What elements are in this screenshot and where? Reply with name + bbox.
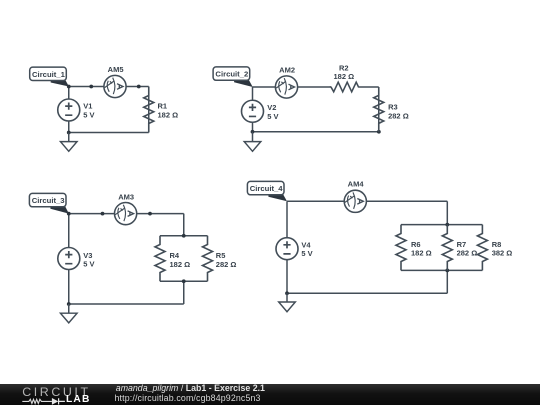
wire C2 V2 branch vertical [252,87,254,132]
svg-text:AM5: AM5 [108,65,124,74]
wire C4 corner down to top bus [446,201,448,224]
resistor R1 (182) vertical [144,87,178,133]
wire C3 top (node to corner) [69,213,184,215]
wire C3 bus drop to return [183,281,185,304]
wire C2 top (node to R2) [253,86,332,88]
footer bar [0,384,540,405]
wire C1 top (node to R1) [69,86,149,88]
wire C2 R3 drop [378,87,380,132]
svg-text:182 Ω: 182 Ω [170,260,191,269]
logo diode [52,398,58,405]
junction dot C3 bottom bus [182,279,186,283]
junction dot C1 ammeter left [89,85,93,89]
wire C1 V1 branch vertical [68,87,70,133]
CircuitLab logo resistor+diode glyph [20,396,68,405]
junction dot C3 top bus [182,234,186,238]
junction dot C1 node [67,85,71,89]
junction dot C4 ground node [285,291,289,295]
logo resistor zigzag [22,399,52,403]
wire C3 bottom bus [160,280,208,282]
wire C3 V3 branch vertical [68,214,70,304]
svg-text:Circuit_1: Circuit_1 [32,70,66,79]
svg-text:182 Ω: 182 Ω [411,248,432,257]
wire C4 top (node to corner) [287,200,447,202]
svg-text:5 V: 5 V [83,260,94,269]
footer title line [116,383,265,393]
svg-text:5 V: 5 V [267,112,278,121]
svg-text:R1: R1 [158,102,168,111]
voltage source V3 (5 V) [58,248,95,270]
svg-text:282 Ω: 282 Ω [457,248,478,257]
voltage source V1 (5 V) [58,99,95,121]
svg-text:AM2: AM2 [279,65,295,74]
svg-text:182 Ω: 182 Ω [333,72,354,81]
ground symbol (C4) [279,293,296,311]
svg-text:282 Ω: 282 Ω [216,260,237,269]
svg-text:R3: R3 [388,103,398,112]
ground symbol (C2) [244,132,261,152]
wire C2 top right to corner [359,86,379,88]
resistor R2 (182) horizontal [331,63,359,91]
voltage source V2 (5 V) [242,100,279,122]
resistor R3 (282) vertical [374,87,409,132]
ammeter AM4 [344,180,366,213]
svg-text:Circuit_2: Circuit_2 [215,70,248,79]
wire C4 top bus [401,224,482,226]
svg-text:Circuit_4: Circuit_4 [250,184,284,193]
resistor R6 (182) vertical [396,225,432,271]
footer url line [115,393,261,403]
wire C3 corner down to top bus [183,214,185,236]
resistor R5 (282) vertical [203,236,237,282]
ammeter AM5 [104,65,126,98]
wire C3 bottom return [69,303,184,305]
CircuitLab logo text CIRCUIT [22,385,90,399]
junction dot C4 top bus [445,223,449,227]
resistor R8 (382) vertical [477,225,512,271]
junction dot C1 ground node [67,131,71,135]
ground symbol (C1) [60,133,77,152]
wire C4 V4 branch vertical [286,201,288,293]
resistor R7 (282) vertical [442,225,477,271]
junction dot C3 ammeter right [148,212,152,216]
node label Circuit_2 box [213,67,250,80]
svg-text:282 Ω: 282 Ω [388,111,409,120]
node label Circuit_4 pointer [268,195,287,202]
svg-text:AM4: AM4 [348,180,365,189]
svg-text:Circuit_3: Circuit_3 [32,196,65,205]
ammeter AM2 [275,65,297,98]
ammeter AM3 [115,192,137,224]
wire C4 bottom return [287,292,447,294]
junction dot C1 ammeter right [137,85,141,89]
junction dot C3 node [67,212,71,216]
voltage source V4 (5 V) [276,238,313,260]
node label Circuit_3 box [29,193,66,206]
CircuitLab logo text LAB [66,394,91,405]
wire C2 bottom return [253,131,379,133]
junction dot C3 ground node [67,302,71,306]
svg-text:AM3: AM3 [118,192,134,201]
svg-text:V1: V1 [83,102,92,111]
junction dot C2 ground node [251,130,255,134]
wire C4 bottom bus [401,269,482,271]
junction dot C4 bottom bus [445,269,449,273]
wire C4 bus drop to return [446,270,448,293]
svg-text:V3: V3 [83,251,92,260]
node label Circuit_3 pointer [50,207,69,214]
resistor R4 (182) vertical [155,236,190,282]
junction dot C3 ammeter left [101,212,105,216]
svg-text:182 Ω: 182 Ω [158,110,179,119]
node label Circuit_2 pointer [234,80,253,87]
wire C1 bottom return [69,132,149,134]
node label Circuit_1 box [30,67,67,80]
svg-text:5 V: 5 V [83,111,94,120]
node label Circuit_1 pointer [51,80,69,86]
ground symbol (C3) [60,304,77,323]
svg-text:382 Ω: 382 Ω [492,248,513,257]
svg-text:5 V: 5 V [301,249,312,258]
wire C3 top bus [160,235,208,237]
wire C1 R1 right drop [148,87,150,133]
node label Circuit_4 box [247,181,284,194]
svg-text:V2: V2 [267,103,276,112]
svg-text:V4: V4 [301,240,311,249]
junction dot C2 bottom right [377,130,381,134]
